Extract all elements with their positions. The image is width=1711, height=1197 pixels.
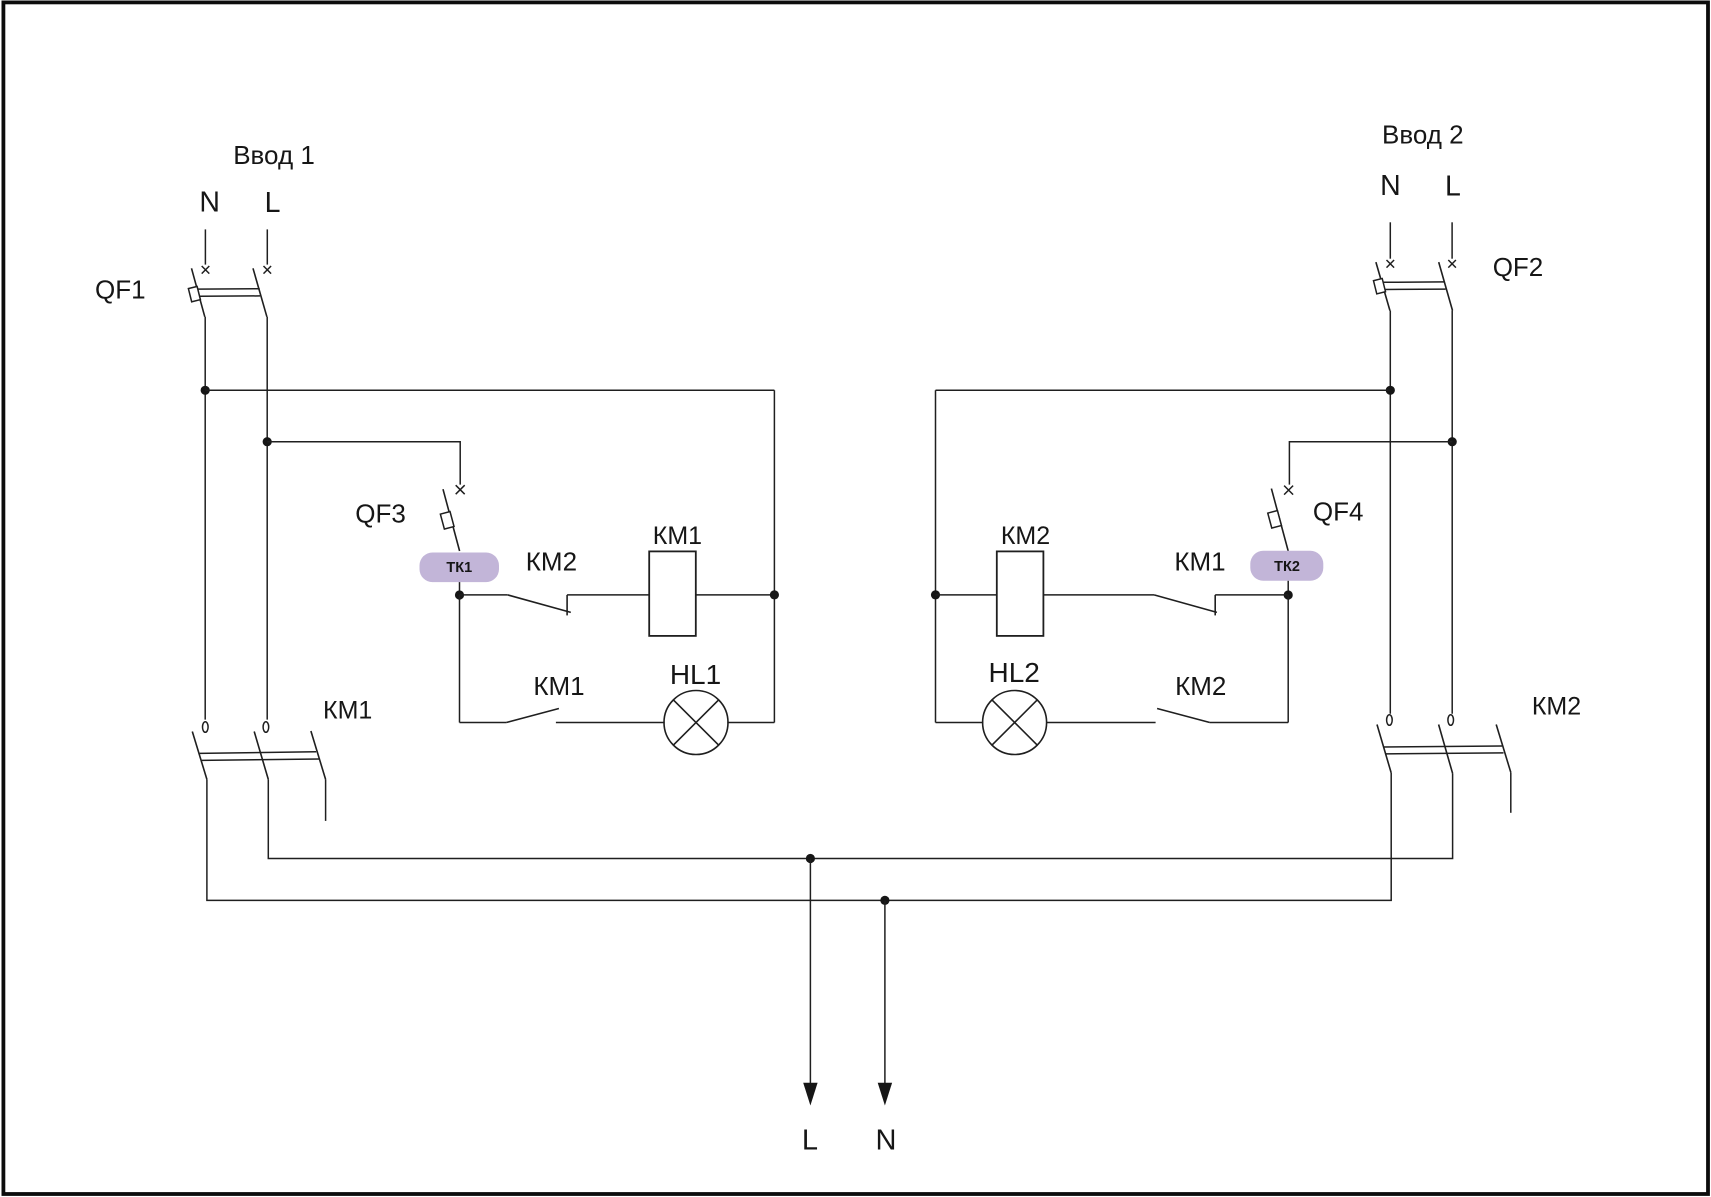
wire node to NC contact KM2 bbox=[460, 594, 508, 596]
node TK2 junction bbox=[1284, 590, 1293, 599]
coil KM2 bbox=[997, 551, 1044, 636]
node N2 junction bbox=[1386, 386, 1395, 395]
NC contact KM1 bbox=[1154, 595, 1217, 616]
svg-text:HL2: HL2 bbox=[989, 657, 1040, 688]
svg-text:КМ2: КМ2 bbox=[1532, 693, 1581, 721]
svg-text:N: N bbox=[876, 1125, 897, 1157]
wire lamp row to NO contact KM1 bbox=[460, 722, 507, 724]
wire L1 branch to QF3 bbox=[267, 442, 460, 485]
circuit breaker QF2 bbox=[1373, 262, 1452, 310]
wire left side of control loop 2 bbox=[935, 390, 937, 722]
arrowhead L output bbox=[803, 1083, 817, 1106]
wire NC contact to coil KM1 bbox=[567, 594, 649, 596]
node of control loop 1 bbox=[770, 590, 779, 599]
lamp HL2 bbox=[983, 691, 1047, 755]
svg-text:L: L bbox=[1445, 170, 1461, 202]
wire L2 branch to QF4 bbox=[1289, 442, 1452, 485]
svg-text:N: N bbox=[1380, 170, 1401, 202]
svg-text:QF4: QF4 bbox=[1313, 496, 1364, 526]
NO contact KM1 bbox=[506, 709, 559, 723]
wire node to coil KM2 bbox=[936, 594, 997, 596]
wire control loop 2 to lamp HL2 bbox=[936, 722, 984, 724]
contactor KM1 main contacts bbox=[192, 722, 325, 821]
svg-text:Ввод 1: Ввод 1 bbox=[233, 140, 315, 170]
wire L lead input 1 bbox=[266, 229, 268, 264]
thermal contact TK1 bbox=[420, 553, 500, 583]
svg-text:КМ1: КМ1 bbox=[533, 671, 584, 701]
terminal X on QF4 bbox=[1284, 486, 1293, 495]
wire coil KM2 to NC contact KM1 bbox=[1043, 594, 1154, 596]
wire N output bus bbox=[207, 773, 1391, 901]
svg-text:L: L bbox=[802, 1125, 818, 1157]
lamp HL1 bbox=[664, 691, 728, 755]
coil KM1 bbox=[649, 551, 696, 636]
wire QF1 L pole down to contactor KM1 bbox=[266, 317, 268, 720]
svg-text:КМ2: КМ2 bbox=[1175, 671, 1226, 701]
circuit breaker QF1 bbox=[188, 268, 267, 317]
wire lamp HL1 to control loop 1 bbox=[727, 722, 774, 724]
wire TK1 node down to lamp row bbox=[459, 595, 461, 723]
node of control loop 2 bbox=[931, 590, 940, 599]
wire TK1 to node bbox=[459, 582, 461, 595]
wire NO contact KM1 to lamp HL1 bbox=[556, 722, 665, 724]
node L2 junction bbox=[1448, 437, 1457, 446]
svg-text:QF3: QF3 bbox=[355, 498, 406, 528]
wire QF1 N pole down to contactor KM1 bbox=[204, 317, 206, 720]
arrowhead N output bbox=[878, 1083, 892, 1106]
thermal contact TK2 bbox=[1250, 551, 1323, 581]
terminal X on N input 1 bbox=[202, 266, 210, 274]
svg-text:QF1: QF1 bbox=[95, 275, 146, 305]
wire TK2 node down to lamp row bbox=[1287, 595, 1289, 723]
svg-text:ТК1: ТК1 bbox=[446, 560, 472, 576]
svg-text:КМ1: КМ1 bbox=[1174, 547, 1225, 577]
wire N bus of input 2 bbox=[936, 389, 1391, 391]
svg-text:N: N bbox=[199, 187, 220, 219]
wire N output arrow bbox=[884, 900, 886, 1083]
terminal X on QF3 bbox=[456, 485, 465, 494]
circuit breaker QF3 bbox=[440, 489, 459, 551]
svg-text:QF2: QF2 bbox=[1493, 252, 1544, 282]
node N output junction bbox=[880, 896, 889, 905]
svg-text:КМ2: КМ2 bbox=[526, 547, 577, 577]
wire right side of control loop 1 bbox=[773, 390, 775, 722]
wire TK2 to node bbox=[1287, 581, 1289, 595]
svg-text:КМ2: КМ2 bbox=[1001, 522, 1050, 550]
wire L lead input 2 bbox=[1451, 222, 1453, 258]
wire coil KM1 to node bbox=[696, 594, 775, 596]
terminal X on L input 2 bbox=[1448, 260, 1456, 268]
NO contact KM2 bbox=[1157, 709, 1210, 723]
wire L output bus bbox=[268, 773, 1452, 858]
NC contact KM2 bbox=[508, 595, 571, 616]
circuit breaker QF4 bbox=[1268, 489, 1288, 551]
wire N bus of input 1 bbox=[205, 389, 774, 391]
svg-text:ТК2: ТК2 bbox=[1274, 559, 1300, 575]
svg-text:HL1: HL1 bbox=[670, 659, 721, 690]
svg-text:КМ1: КМ1 bbox=[653, 522, 702, 550]
node N1 junction bbox=[201, 386, 210, 395]
node L1 junction bbox=[263, 437, 272, 446]
wire QF2 L pole down to contactor KM2 bbox=[1451, 311, 1453, 714]
node TK1 junction bbox=[455, 590, 464, 599]
wire QF2 N pole down to contactor KM2 bbox=[1389, 311, 1391, 714]
wire NO contact KM2 to lamp HL2 bbox=[1046, 722, 1155, 724]
node L output junction bbox=[806, 854, 815, 863]
svg-text:Ввод 2: Ввод 2 bbox=[1382, 120, 1464, 150]
wire lamp row to NO contact KM2 bbox=[1210, 722, 1288, 724]
terminal X on N input 2 bbox=[1387, 260, 1395, 268]
wire N lead input 2 bbox=[1389, 222, 1391, 258]
wire L output arrow bbox=[809, 859, 811, 1084]
terminal X on L input 1 bbox=[264, 266, 272, 274]
contactor KM2 main contacts bbox=[1377, 715, 1511, 813]
wire N lead input 1 bbox=[204, 229, 206, 264]
svg-text:L: L bbox=[265, 187, 281, 219]
svg-text:КМ1: КМ1 bbox=[323, 697, 372, 725]
wire NC contact KM1 to TK2 node bbox=[1215, 594, 1288, 596]
